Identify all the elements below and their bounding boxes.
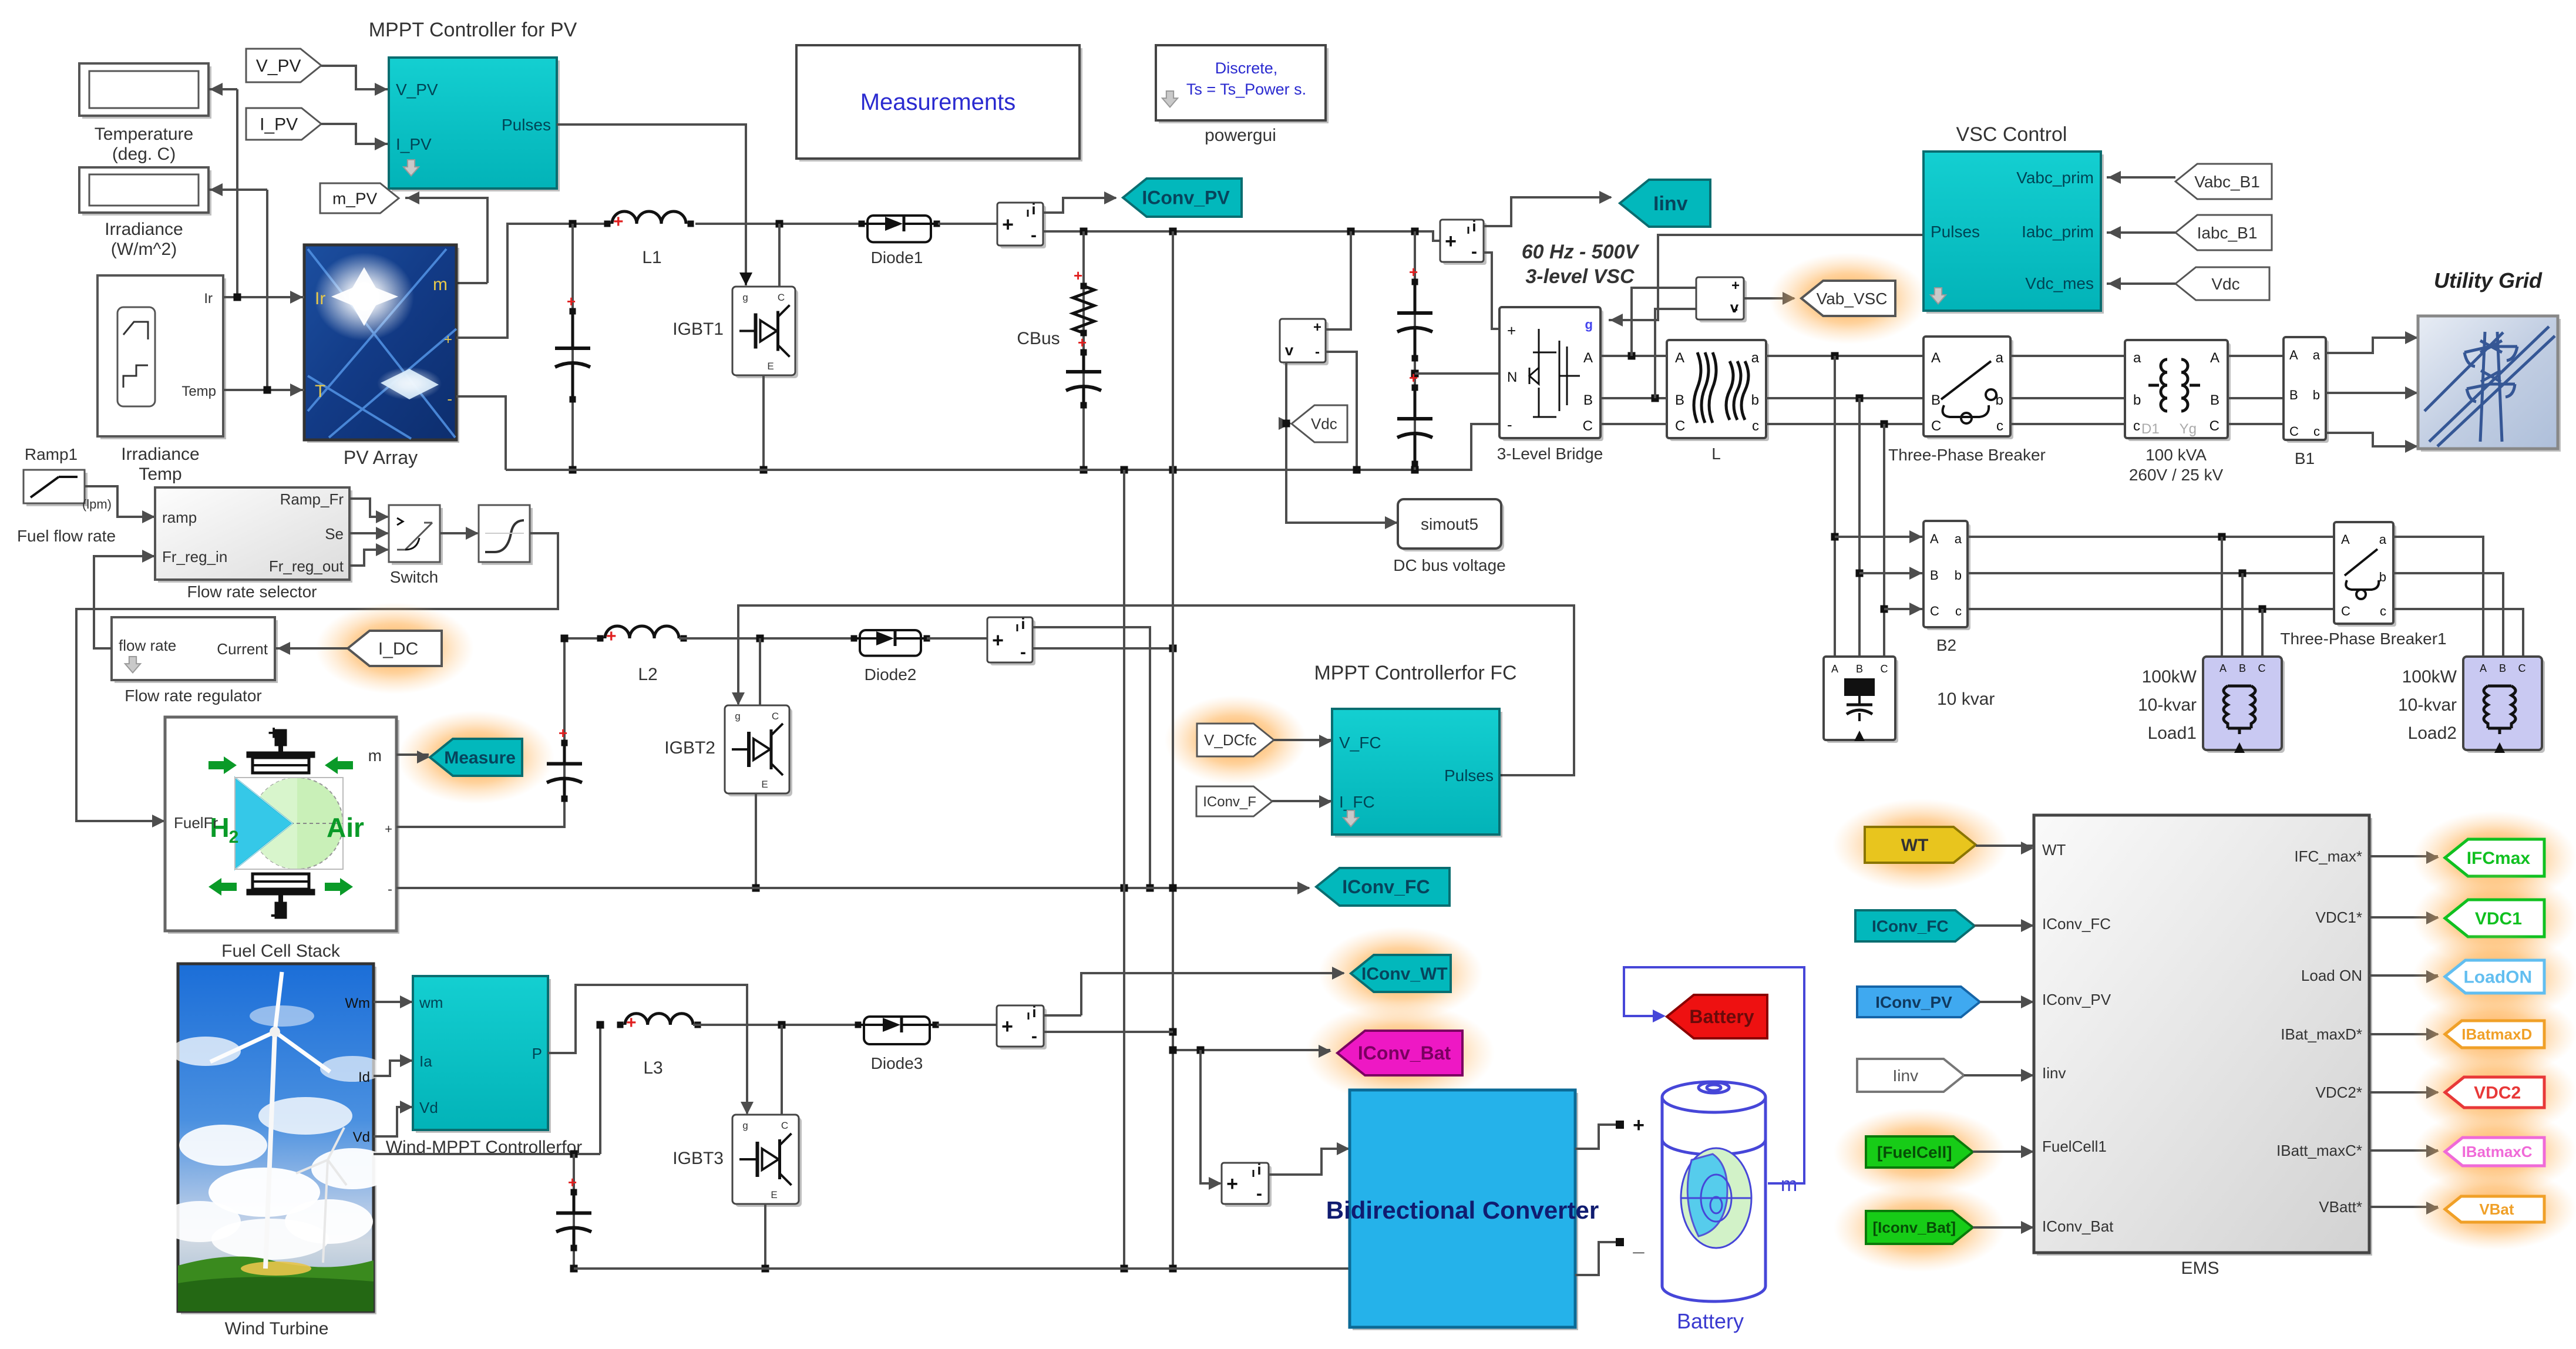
svg-text:+: + <box>1002 214 1014 236</box>
svg-text:Vdc: Vdc <box>1311 415 1337 433</box>
svg-text:g: g <box>742 292 748 303</box>
svg-text:a: a <box>1955 531 1962 546</box>
svg-text:Iabc_prim: Iabc_prim <box>2022 223 2094 241</box>
svg-text:-: - <box>1020 642 1026 662</box>
svg-text:+: + <box>444 332 452 348</box>
svg-text:_: _ <box>1633 1233 1645 1256</box>
svg-text:DC bus voltage: DC bus voltage <box>1393 556 1505 574</box>
svg-text:IGBT2: IGBT2 <box>664 738 715 758</box>
svg-text:+: + <box>992 630 1004 652</box>
svg-text:C: C <box>2341 604 2350 618</box>
svg-text:+: + <box>613 212 624 231</box>
svg-text:E: E <box>771 1189 777 1200</box>
svg-text:Flow rate regulator: Flow rate regulator <box>125 687 261 705</box>
svg-text:C: C <box>2258 662 2266 674</box>
svg-text:Temp: Temp <box>139 465 181 484</box>
svg-text:VBat: VBat <box>2479 1200 2514 1218</box>
svg-text:+: + <box>626 1013 637 1032</box>
svg-text:c: c <box>1955 604 1962 618</box>
svg-text:I_PV: I_PV <box>396 135 432 153</box>
svg-text:IGBT1: IGBT1 <box>672 319 724 339</box>
svg-text:B: B <box>2499 662 2506 674</box>
svg-text:V_PV: V_PV <box>396 80 438 99</box>
svg-text:C: C <box>1583 418 1593 434</box>
svg-text:+: + <box>1731 278 1740 294</box>
svg-text:MPPT Controllerfor FC: MPPT Controllerfor FC <box>1314 662 1516 684</box>
svg-text:B: B <box>1930 568 1939 583</box>
svg-text:C: C <box>1881 663 1888 675</box>
svg-text:IConv_WT: IConv_WT <box>1361 964 1448 984</box>
svg-text:powergui: powergui <box>1205 126 1276 145</box>
svg-text:Measurements: Measurements <box>860 89 1016 115</box>
svg-text:flow rate: flow rate <box>119 637 176 654</box>
svg-text:a: a <box>1996 350 2004 366</box>
svg-text:Fr_reg_in: Fr_reg_in <box>162 548 227 566</box>
svg-text:-: - <box>1507 416 1512 433</box>
svg-text:VDC1: VDC1 <box>2475 909 2522 929</box>
svg-text:Fr_reg_out: Fr_reg_out <box>269 557 344 575</box>
svg-text:PV Array: PV Array <box>344 447 418 468</box>
svg-text:B2: B2 <box>1936 636 1956 654</box>
svg-text:B: B <box>1675 392 1684 408</box>
svg-text:L1: L1 <box>642 248 661 267</box>
svg-text:a: a <box>2379 532 2387 547</box>
svg-text:+: + <box>567 292 576 310</box>
svg-text:Current: Current <box>217 640 268 658</box>
svg-text:Battery: Battery <box>1677 1309 1744 1333</box>
svg-text:IGBT3: IGBT3 <box>672 1149 724 1168</box>
svg-text:IConv_Bat: IConv_Bat <box>2042 1217 2114 1235</box>
svg-text:c: c <box>2380 604 2386 618</box>
svg-text:-: - <box>1031 1027 1037 1046</box>
svg-text:A: A <box>1930 531 1939 546</box>
svg-text:260V / 25 kV: 260V / 25 kV <box>2129 466 2224 484</box>
svg-text:L3: L3 <box>643 1058 663 1078</box>
svg-text:3-Level Bridge: 3-Level Bridge <box>1497 445 1603 463</box>
svg-text:B: B <box>2289 388 2298 402</box>
svg-text:Discrete,: Discrete, <box>1215 59 1278 77</box>
svg-text:-: - <box>1733 301 1738 317</box>
svg-text:VSC Control: VSC Control <box>1956 123 2067 146</box>
svg-text:+: + <box>1074 267 1082 284</box>
svg-text:IConv_FC: IConv_FC <box>1342 876 1430 897</box>
svg-text:+: + <box>1507 322 1516 339</box>
svg-text:b: b <box>2379 570 2386 584</box>
svg-text:+: + <box>268 722 280 744</box>
svg-text:I_PV: I_PV <box>260 115 298 134</box>
svg-text:Iinv: Iinv <box>1893 1067 1919 1085</box>
svg-text:A: A <box>2289 348 2298 362</box>
svg-text:Ir: Ir <box>315 289 325 308</box>
svg-text:-: - <box>1031 226 1037 245</box>
svg-text:100kW: 100kW <box>2402 667 2457 687</box>
svg-text:Ia: Ia <box>419 1052 432 1070</box>
svg-text:(deg. C): (deg. C) <box>112 144 176 164</box>
svg-text:C: C <box>1675 418 1685 434</box>
svg-text:WT: WT <box>2042 841 2066 859</box>
svg-text:10-kvar: 10-kvar <box>2138 695 2197 715</box>
svg-text:IBatmaxD: IBatmaxD <box>2461 1025 2532 1043</box>
svg-text:Diode3: Diode3 <box>871 1054 923 1072</box>
svg-text:a: a <box>2133 350 2141 366</box>
svg-text:Diode2: Diode2 <box>865 665 917 684</box>
svg-text:Iinv: Iinv <box>1653 193 1688 215</box>
svg-text:Measure: Measure <box>444 748 516 768</box>
svg-text:Vdc_mes: Vdc_mes <box>2025 274 2094 292</box>
svg-text:-: - <box>388 882 392 897</box>
svg-text:WT: WT <box>1901 836 1929 855</box>
svg-text:Three-Phase Breaker: Three-Phase Breaker <box>1888 446 2046 464</box>
svg-text:IConv_PV: IConv_PV <box>1875 993 1952 1011</box>
svg-text:Bidirectional Converter: Bidirectional Converter <box>1326 1196 1599 1224</box>
svg-text:C: C <box>1931 418 1941 434</box>
svg-text:i: i <box>1472 217 1476 235</box>
svg-text:V_FC: V_FC <box>1339 734 1381 752</box>
svg-text:a: a <box>2313 348 2321 362</box>
svg-text:i: i <box>1257 1160 1261 1178</box>
svg-text:V_PV: V_PV <box>256 56 301 76</box>
svg-text:V_DCfc: V_DCfc <box>1204 731 1257 749</box>
svg-text:Wind Turbine: Wind Turbine <box>225 1319 329 1338</box>
svg-text:T: T <box>315 382 325 401</box>
svg-text:VDC2*: VDC2* <box>2316 1084 2362 1101</box>
svg-text:Vab_VSC: Vab_VSC <box>1817 290 1888 308</box>
svg-text:L: L <box>1711 445 1721 463</box>
svg-text:VBatt*: VBatt* <box>2319 1198 2362 1216</box>
svg-text:A: A <box>2341 532 2350 547</box>
svg-text:+: + <box>1001 1015 1013 1038</box>
svg-text:IBat_maxD*: IBat_maxD* <box>2281 1025 2362 1043</box>
svg-text:m: m <box>368 746 382 765</box>
svg-text:Pulses: Pulses <box>502 116 551 134</box>
svg-text:Fuel flow rate: Fuel flow rate <box>17 527 116 545</box>
svg-text:I_DC: I_DC <box>378 640 418 659</box>
svg-text:Temp: Temp <box>181 383 216 399</box>
svg-text:m_PV: m_PV <box>332 189 378 207</box>
svg-text:v: v <box>1285 341 1294 359</box>
svg-text:b: b <box>2313 388 2320 402</box>
svg-text:-: - <box>270 903 277 926</box>
svg-text:C: C <box>2210 418 2219 434</box>
svg-text:VDC1*: VDC1* <box>2316 909 2362 926</box>
svg-text:b: b <box>2133 392 2141 408</box>
svg-text:FuelCell1: FuelCell1 <box>2042 1138 2107 1155</box>
svg-text:A: A <box>2210 350 2219 366</box>
svg-text:IConv_PV: IConv_PV <box>2042 991 2111 1008</box>
svg-text:a: a <box>1751 350 1760 366</box>
svg-text:g: g <box>742 1120 748 1131</box>
svg-text:IBatmaxC: IBatmaxC <box>2462 1143 2533 1160</box>
svg-text:IBatt_maxC*: IBatt_maxC* <box>2276 1142 2362 1159</box>
svg-text:C: C <box>2518 662 2526 674</box>
svg-text:i: i <box>1021 615 1025 633</box>
svg-text:Load1: Load1 <box>2148 724 2197 743</box>
svg-text:L2: L2 <box>638 665 657 684</box>
svg-text:A: A <box>1675 350 1684 366</box>
svg-text:Vabc_prim: Vabc_prim <box>2016 169 2094 187</box>
svg-text:C: C <box>2289 424 2299 439</box>
svg-text:A: A <box>1931 350 1941 366</box>
svg-text:C: C <box>1930 604 1939 618</box>
svg-text:Ts = Ts_Power s.: Ts = Ts_Power s. <box>1186 80 1306 98</box>
svg-text:EMS: EMS <box>2181 1259 2219 1278</box>
svg-text:100 kVA: 100 kVA <box>2145 446 2207 464</box>
svg-text:IConv_Bat: IConv_Bat <box>1358 1042 1451 1064</box>
svg-text:+: + <box>1445 230 1457 253</box>
svg-text:Ramp_Fr: Ramp_Fr <box>280 490 344 508</box>
svg-text:Air: Air <box>327 812 364 843</box>
svg-text:Diode1: Diode1 <box>871 248 923 267</box>
svg-text:Battery: Battery <box>1689 1006 1754 1027</box>
svg-text:Vd: Vd <box>419 1099 438 1116</box>
svg-text:B1: B1 <box>2295 449 2315 467</box>
svg-text:B: B <box>2210 392 2219 408</box>
svg-text:C: C <box>778 292 785 303</box>
svg-text:(W/m^2): (W/m^2) <box>111 240 177 259</box>
svg-text:Ramp1: Ramp1 <box>25 445 78 463</box>
svg-text:+: + <box>1409 263 1418 281</box>
svg-text:+: + <box>1078 334 1087 351</box>
svg-text:IFC_max*: IFC_max* <box>2294 847 2362 865</box>
svg-text:Vdc: Vdc <box>2211 275 2239 293</box>
svg-text:C: C <box>781 1120 788 1131</box>
svg-text:-: - <box>1256 1184 1262 1203</box>
svg-text:Three-Phase Breaker1: Three-Phase Breaker1 <box>2280 630 2446 648</box>
svg-text:Se: Se <box>325 525 344 543</box>
svg-text:i: i <box>1031 200 1035 218</box>
svg-text:(lpm): (lpm) <box>82 497 112 512</box>
svg-text:IConv_FC: IConv_FC <box>1872 917 1949 935</box>
svg-text:+: + <box>1226 1173 1238 1195</box>
svg-text:i: i <box>1032 1003 1036 1021</box>
svg-text:[Iconv_Bat]: [Iconv_Bat] <box>1873 1219 1956 1236</box>
svg-text:I_FC: I_FC <box>1339 793 1375 811</box>
svg-text:Flow rate selector: Flow rate selector <box>187 583 317 601</box>
svg-text:wm: wm <box>419 994 443 1011</box>
svg-text:FuelFr: FuelFr <box>174 814 218 832</box>
svg-text:2: 2 <box>229 827 239 847</box>
svg-text:IConv_FC: IConv_FC <box>2042 915 2111 933</box>
svg-text:m: m <box>433 275 448 294</box>
svg-text:Fuel Cell Stack: Fuel Cell Stack <box>221 941 341 961</box>
svg-text:3-level VSC: 3-level VSC <box>1525 265 1635 288</box>
svg-text:IConv_PV: IConv_PV <box>1142 187 1230 208</box>
svg-text:CBus: CBus <box>1017 329 1060 348</box>
svg-text:b: b <box>1751 392 1759 408</box>
svg-text:+: + <box>568 1173 577 1191</box>
svg-text:+: + <box>1313 319 1321 335</box>
svg-text:VDC2: VDC2 <box>2474 1084 2521 1103</box>
svg-text:Iabc_B1: Iabc_B1 <box>2197 224 2258 242</box>
svg-text:simout5: simout5 <box>1421 515 1478 533</box>
svg-text:c: c <box>1996 418 2003 434</box>
svg-text:c: c <box>1752 418 1759 434</box>
svg-text:Temperature: Temperature <box>95 125 193 144</box>
svg-text:+: + <box>1633 1114 1645 1136</box>
svg-text:10 kvar: 10 kvar <box>1937 689 1995 709</box>
svg-text:-: - <box>1315 344 1320 360</box>
svg-text:P: P <box>532 1045 542 1062</box>
svg-text:Switch: Switch <box>390 568 438 586</box>
svg-text:Irradiance: Irradiance <box>105 220 183 239</box>
svg-text:Vabc_B1: Vabc_B1 <box>2194 173 2260 191</box>
svg-text:+: + <box>385 822 392 836</box>
svg-text:-: - <box>447 390 452 408</box>
svg-text:-: - <box>1471 242 1477 261</box>
svg-text:Id: Id <box>358 1069 370 1085</box>
svg-text:g: g <box>1585 317 1593 332</box>
svg-text:Pulses: Pulses <box>1931 223 1980 241</box>
svg-text:+: + <box>1409 369 1418 386</box>
svg-text:B: B <box>1583 392 1593 408</box>
svg-text:+: + <box>606 627 617 646</box>
svg-text:60 Hz - 500V: 60 Hz - 500V <box>1522 241 1640 263</box>
svg-text:b: b <box>1955 568 1962 583</box>
svg-text:A: A <box>1831 663 1838 675</box>
svg-text:LoadON: LoadON <box>2463 968 2532 987</box>
svg-text:N: N <box>1507 369 1517 385</box>
svg-text:IFCmax: IFCmax <box>2467 849 2531 868</box>
svg-text:A: A <box>2480 662 2487 674</box>
svg-text:E: E <box>761 779 768 790</box>
svg-text:C: C <box>772 711 779 722</box>
svg-text:+: + <box>559 724 567 742</box>
svg-text:g: g <box>735 711 740 722</box>
svg-text:A: A <box>1583 350 1593 366</box>
svg-text:Load2: Load2 <box>2408 724 2457 743</box>
svg-text:Vd: Vd <box>353 1129 370 1145</box>
svg-text:Iinv: Iinv <box>2042 1064 2066 1082</box>
svg-text:E: E <box>767 361 774 372</box>
svg-text:100kW: 100kW <box>2142 667 2197 687</box>
svg-text:MPPT Controller for PV: MPPT Controller for PV <box>369 19 577 41</box>
svg-text:D1: D1 <box>2141 421 2160 437</box>
svg-text:Ir: Ir <box>204 291 213 307</box>
svg-text:10-kvar: 10-kvar <box>2398 695 2457 715</box>
svg-text:IConv_F: IConv_F <box>1203 794 1256 810</box>
svg-text:Wm: Wm <box>345 995 370 1011</box>
svg-text:c: c <box>2313 424 2320 439</box>
svg-text:A: A <box>2219 662 2227 674</box>
svg-text:B: B <box>1856 663 1863 675</box>
svg-text:B: B <box>2239 662 2246 674</box>
svg-text:Pulses: Pulses <box>1444 766 1494 785</box>
svg-text:[FuelCell]: [FuelCell] <box>1877 1143 1952 1161</box>
svg-text:B: B <box>1931 392 1941 408</box>
svg-text:Load ON: Load ON <box>2301 967 2362 984</box>
svg-text:Utility Grid: Utility Grid <box>2434 268 2543 292</box>
svg-text:c: c <box>2133 418 2140 434</box>
svg-text:ramp: ramp <box>162 509 197 526</box>
svg-text:Yg: Yg <box>2180 421 2197 437</box>
svg-text:Irradiance: Irradiance <box>121 445 199 464</box>
